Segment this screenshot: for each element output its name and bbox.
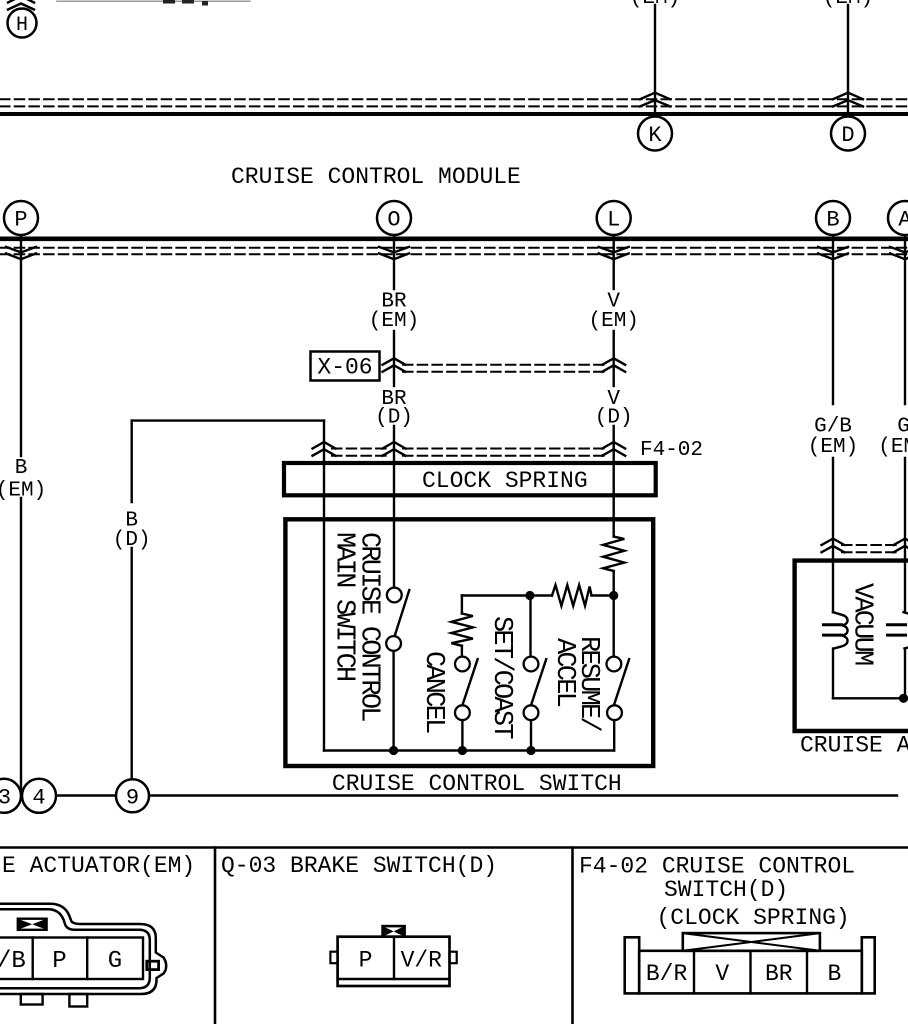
- svg-text:(EM): (EM): [808, 436, 858, 459]
- brake connector pin divider: [393, 937, 395, 979]
- svg-text:CANCEL: CANCEL: [418, 651, 448, 733]
- chevron below pin B: [818, 247, 848, 259]
- module pin O: [377, 201, 411, 235]
- svg-text:(EM): (EM): [369, 310, 419, 333]
- set/coast upper contact: [524, 657, 539, 672]
- chevron below pin L: [599, 247, 629, 259]
- svg-text:CRUISE CONTROL MODULE: CRUISE CONTROL MODULE: [231, 164, 521, 190]
- node H: [8, 9, 37, 38]
- wire joining coils: [833, 697, 908, 699]
- wire resume resistor to junction: [613, 571, 615, 596]
- svg-text:P: P: [14, 208, 27, 233]
- cut-off text fragment above page: [163, 0, 208, 6]
- svg-text:V: V: [715, 961, 729, 987]
- node K: [638, 117, 672, 151]
- svg-text:CLOCK SPRING: CLOCK SPRING: [422, 468, 588, 494]
- wire cancel vertical upper: [461, 596, 463, 614]
- svg-text:(CLOCK SPRING): (CLOCK SPRING): [657, 905, 850, 931]
- svg-text:F4-02 CRUISE CONTROL: F4-02 CRUISE CONTROL: [579, 854, 855, 880]
- brake connector right tab: [450, 952, 457, 964]
- actuator connector keying box with X: [18, 919, 47, 930]
- dashed link F4-02 left upper: [332, 448, 387, 450]
- F4-02 pin divider 3: [806, 951, 808, 994]
- dashed link F4-02 left lower: [332, 455, 387, 457]
- wire coil 2 down: [904, 649, 906, 699]
- svg-text:B: B: [826, 208, 839, 233]
- solenoid 2 core bar 1: [888, 623, 906, 626]
- dashed link X-06 lower: [403, 371, 605, 373]
- chevron below pin O: [379, 247, 409, 259]
- svg-text:P: P: [52, 948, 66, 975]
- solenoid core bar 1: [824, 623, 842, 626]
- cruise actuator connector outer shell: [0, 904, 166, 994]
- wire V (D) down to resume resistor: [613, 426, 615, 537]
- svg-text:F4-02: F4-02: [640, 439, 703, 462]
- svg-text:L: L: [607, 208, 620, 233]
- svg-text:D: D: [841, 123, 854, 148]
- svg-text:SWITCH(D): SWITCH(D): [664, 877, 788, 903]
- wire G/B into actuator coil: [832, 458, 834, 612]
- vacuum solenoid coil 2 (cut at edge): [904, 612, 908, 648]
- wire from pin L (V EM) segment: [613, 235, 615, 289]
- F4-02 pin divider 2: [749, 951, 751, 994]
- wire cancel lower contact to bus: [461, 720, 463, 750]
- module pin L: [597, 201, 631, 235]
- F4-02 pin divider 1: [693, 951, 695, 994]
- set/coast switch blade: [531, 659, 546, 705]
- svg-text:W/B: W/B: [0, 948, 26, 975]
- cruise actuator box: [795, 561, 908, 731]
- wire coil 1 to junction: [832, 649, 834, 699]
- cancel upper contact: [455, 657, 470, 672]
- dashed bus line 2 lower: [0, 253, 908, 255]
- svg-text:B/R: B/R: [646, 961, 688, 987]
- resume/accel upper contact: [607, 657, 622, 672]
- connector chevron on wire D: [833, 93, 863, 107]
- set/coast lower contact: [524, 705, 539, 720]
- brake switch connector body: [338, 937, 450, 986]
- F4-02 connector left end tab: [625, 937, 640, 993]
- F4-02 connector keying box: [683, 933, 820, 951]
- actuator connector latch slot: [147, 961, 159, 969]
- solenoid core bar 2: [824, 634, 842, 637]
- splice node 9: [116, 779, 149, 812]
- svg-text:CRUISE ACTUATOR: CRUISE ACTUATOR: [800, 733, 908, 759]
- actuator connector pin row box: [0, 938, 143, 980]
- svg-text:E ACTUATOR(EM): E ACTUATOR(EM): [2, 853, 195, 879]
- wire to node K (EM): [654, 5, 656, 114]
- junction dot cancel / bus: [458, 746, 467, 755]
- wire set/coast vertical from junction: [529, 596, 531, 657]
- module boundary solid line (top): [0, 112, 908, 116]
- svg-text:9: 9: [126, 786, 139, 811]
- splice node 3: [0, 779, 21, 813]
- vacuum solenoid coil: [833, 612, 848, 648]
- dashed link F4-02 right upper: [403, 448, 605, 450]
- brake connector left tab: [330, 952, 337, 964]
- chevron below pin P: [6, 247, 36, 259]
- svg-text:(D): (D): [375, 407, 413, 430]
- wire from pin B (G/B EM) upper segment: [832, 235, 834, 404]
- wire from pin O (BR EM) segment: [393, 235, 395, 289]
- svg-text:(EM): (EM): [0, 479, 46, 502]
- svg-text:3: 3: [0, 786, 11, 811]
- svg-text:H: H: [16, 14, 28, 37]
- resistor in cancel branch: [451, 614, 473, 646]
- svg-text:O: O: [387, 208, 400, 233]
- clock spring box: [284, 463, 656, 495]
- module pin B: [816, 201, 850, 235]
- cancel switch blade: [462, 659, 477, 705]
- inline connector X-06 box: [311, 352, 380, 381]
- module pin P: [4, 201, 38, 235]
- wire cancel branch top: [462, 594, 530, 596]
- actuator connector mounting tab 2: [69, 994, 87, 1007]
- svg-text:B: B: [15, 457, 28, 480]
- chevron F4-02 on main switch wire: [313, 442, 336, 456]
- resume/accel lower contact: [607, 705, 622, 720]
- svg-text:ACCEL: ACCEL: [549, 638, 579, 707]
- F4-02 connector right end tab: [862, 937, 875, 993]
- wire BR (D) down into main switch: [393, 426, 395, 588]
- junction dot set-coast / bus: [526, 746, 535, 755]
- wire B (D) upper vertical segment: [130, 421, 132, 502]
- legend panel divider 1: [214, 848, 217, 1024]
- wire main switch lower contact to bus: [392, 651, 394, 751]
- svg-text:MAIN SWITCH: MAIN SWITCH: [329, 532, 359, 681]
- partial label box bottom edge (cut off at page top): [57, 0, 250, 2]
- junction dot cancel-top / set-coast: [525, 591, 534, 600]
- junction dot main switch / bus: [389, 746, 398, 755]
- dashed bus line 2 upper: [0, 247, 908, 249]
- connector chevron above node H: [8, 0, 34, 10]
- chevron F4-02 on V wire: [602, 442, 625, 456]
- wire resistor to resume junction: [592, 594, 614, 596]
- brake connector keying box with X: [383, 926, 405, 937]
- chevron F4-02 on BR wire: [383, 442, 406, 456]
- wire set/coast lower contact to bus: [530, 720, 532, 750]
- wire from pin A (G EM) upper segment: [904, 235, 906, 404]
- svg-text:4: 4: [32, 786, 45, 811]
- main switch upper contact: [387, 588, 402, 603]
- svg-text:(D): (D): [595, 407, 633, 430]
- resistor between set/coast and resume nodes: [552, 585, 592, 606]
- chevron X-06 on BR wire: [383, 358, 406, 372]
- wire main switch feed vertical: [323, 421, 325, 751]
- switch common bus wire: [324, 749, 614, 751]
- legend panel divider 2: [571, 848, 574, 1024]
- svg-text:B: B: [827, 961, 841, 987]
- chevron below pin A: [890, 247, 908, 259]
- junction dot coils: [899, 694, 908, 703]
- module boundary solid line (cruise control module): [0, 237, 908, 242]
- svg-text:BR: BR: [765, 961, 793, 987]
- dashed link actuator upper: [842, 544, 896, 546]
- wire resume lower contact to bus: [613, 720, 615, 750]
- F4-02 keying X lines: [683, 933, 820, 951]
- dashed bus line 1 upper: [0, 98, 908, 100]
- actuator connector mounting tab 1: [21, 994, 43, 1005]
- wire G into actuator coil 2: [904, 458, 906, 612]
- wire junction to resume resistor horizontal: [530, 594, 552, 596]
- svg-text:G: G: [108, 948, 122, 975]
- F4-02 connector body: [639, 951, 862, 994]
- main switch blade: [395, 590, 410, 636]
- chevron on G wire at actuator: [894, 539, 908, 553]
- wire resume junction down to contact: [613, 596, 615, 657]
- dashed link X-06 upper: [403, 364, 605, 366]
- svg-text:CRUISE CONTROL SWITCH: CRUISE CONTROL SWITCH: [332, 771, 622, 797]
- solenoid 2 core bar 2: [888, 634, 906, 637]
- svg-text:V/R: V/R: [401, 948, 443, 974]
- svg-text:SET/COAST: SET/COAST: [486, 616, 516, 739]
- svg-text:(EM): (EM): [630, 0, 680, 10]
- pin divider: [32, 938, 34, 980]
- dashed link actuator lower: [842, 551, 896, 553]
- cruise actuator connector inner shell: [0, 909, 150, 988]
- svg-text:(EM): (EM): [878, 436, 908, 459]
- wire resistor to cancel contact: [461, 646, 463, 657]
- node D: [831, 117, 865, 151]
- module pin A: [888, 201, 908, 235]
- wire to node D (EM): [847, 5, 849, 114]
- wire BR segment between labels: [393, 331, 395, 386]
- wire from pin P (B EM) upper segment: [20, 235, 22, 456]
- wire V segment between labels: [613, 331, 615, 386]
- wire from pin P (B EM) lower segment to splice 3/4: [20, 498, 22, 795]
- cancel lower contact: [455, 705, 470, 720]
- ground/splice bus wire bottom: [0, 794, 897, 796]
- svg-text:(D): (D): [113, 529, 151, 552]
- chevron X-06 on V wire: [602, 358, 625, 372]
- svg-text:A: A: [898, 208, 908, 233]
- junction dot resume node: [609, 591, 618, 600]
- bottom legend separator line: [0, 846, 908, 849]
- svg-text:(EM): (EM): [823, 0, 873, 10]
- svg-text:Q-03 BRAKE SWITCH(D): Q-03 BRAKE SWITCH(D): [221, 853, 497, 879]
- cruise control switch box: [285, 519, 653, 766]
- svg-text:K: K: [648, 123, 662, 148]
- resume/accel switch blade: [614, 659, 629, 705]
- svg-text:(EM): (EM): [588, 310, 638, 333]
- connector chevron on wire K: [640, 93, 670, 107]
- brake connector bottom strip line: [338, 978, 450, 980]
- wire B (D): corner from main switch over to x=131.7: [132, 419, 324, 421]
- dashed link F4-02 right lower: [403, 455, 605, 457]
- pin divider: [86, 938, 88, 980]
- svg-text:X-06: X-06: [317, 355, 372, 381]
- svg-text:P: P: [359, 948, 373, 974]
- chevron on G/B wire at actuator: [822, 539, 845, 553]
- splice node 4: [22, 779, 56, 813]
- dashed bus line 1 lower: [0, 105, 908, 107]
- wire B (D) lower segment to splice 9: [130, 548, 132, 782]
- main switch lower contact: [386, 636, 401, 651]
- resistor on V wire (resume): [603, 537, 624, 571]
- svg-text:VACUUM: VACUUM: [847, 583, 877, 665]
